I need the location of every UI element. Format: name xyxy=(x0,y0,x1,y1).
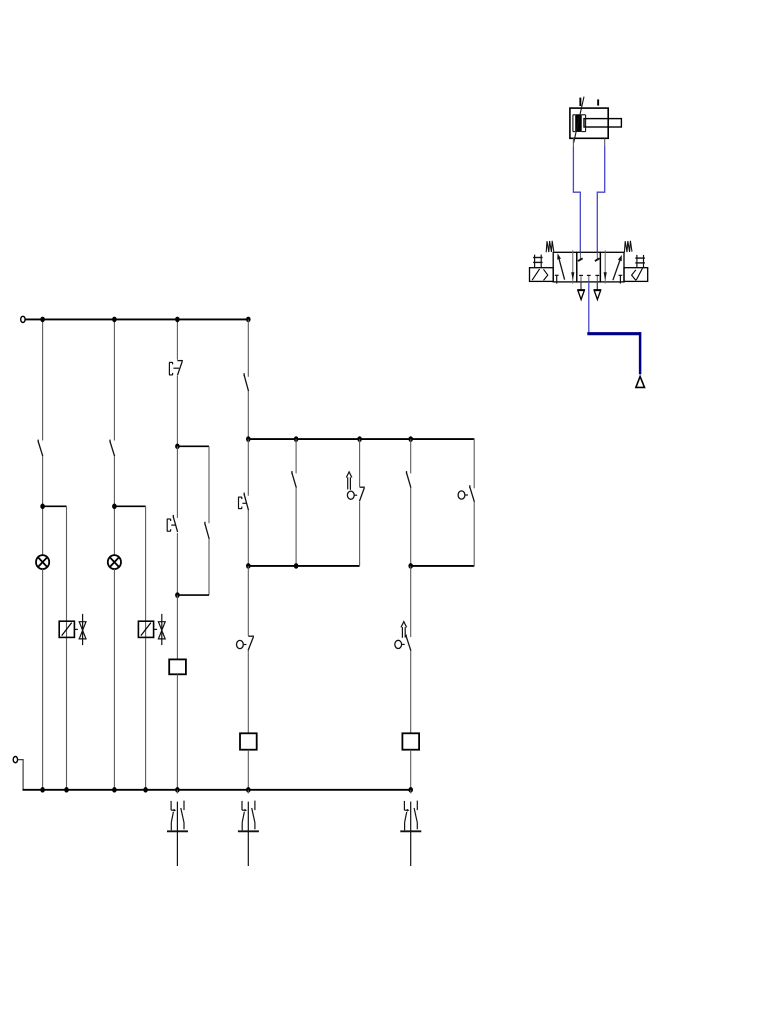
junction top rail / branch2 xyxy=(112,317,117,323)
valve 1V1 left position box xyxy=(553,252,577,282)
link dash Y1 xyxy=(75,628,78,630)
contact K5 NO xyxy=(292,471,296,488)
limit switch 1S3 NO actuated xyxy=(395,635,411,651)
wire jog to solenoid column 2 xyxy=(114,505,145,507)
junction rail2 branch4 xyxy=(246,436,251,442)
terminal 0V left xyxy=(13,757,17,763)
wire left leg lower xyxy=(176,533,178,595)
tube cylinder left to valve port 4 xyxy=(573,147,580,252)
limit switch 1S4 NO xyxy=(458,485,474,502)
exhaust silencer port 3 xyxy=(594,289,602,291)
cylinder 1A cushion right xyxy=(582,115,586,132)
right box flow path arrow up xyxy=(613,255,622,280)
solenoid coil Y1 xyxy=(59,621,74,637)
wire branch3 below coil xyxy=(176,674,178,790)
right box pass line with down arrow xyxy=(604,250,607,283)
wire branch1 mid xyxy=(42,456,44,556)
position tag 1B2 xyxy=(597,99,599,105)
tube valve port 1 down xyxy=(588,282,590,334)
wire top supply rail xyxy=(25,318,248,320)
wire solenoid column 2 xyxy=(145,506,147,790)
actuation arrow 1S2 xyxy=(346,472,352,490)
wire branch7 below coil xyxy=(410,750,412,790)
centre box blocked port 3 xyxy=(595,275,599,282)
wire branch7 below rail3 xyxy=(410,566,412,637)
wire rail 3 right segment xyxy=(411,565,475,567)
junction branch3 bottom xyxy=(175,787,180,793)
junction parallel top xyxy=(175,444,180,450)
main air line horizontal xyxy=(587,332,640,335)
sensor mark diagonal on piston xyxy=(574,97,584,143)
contact K2 NO xyxy=(110,440,115,457)
pushbutton S3 NO (make) xyxy=(244,493,248,511)
junction column1 bottom xyxy=(64,787,69,793)
cylinder port stub right xyxy=(604,138,606,145)
pilot solenoid 1Y1 box left xyxy=(530,268,554,282)
wire branch7 to coil K3 xyxy=(410,651,412,733)
wire parallel bottom rung xyxy=(177,594,209,596)
limit switch 1S1 NC xyxy=(237,636,255,650)
contact K6 NO xyxy=(407,471,411,488)
relay coil K2 xyxy=(240,733,257,749)
wire parallel top rung xyxy=(177,445,209,447)
left box flow path arrow up xyxy=(557,253,564,279)
return spring left xyxy=(546,241,554,253)
wire right leg upper xyxy=(208,446,210,523)
wire branch4 below rail3 xyxy=(247,566,249,636)
cylinder port stub left xyxy=(572,138,574,147)
wire branch4 to rail3 xyxy=(247,510,249,566)
wire rail 2 xyxy=(248,438,474,440)
lamp H2 xyxy=(108,555,121,569)
wire branch6 upper xyxy=(359,439,361,487)
junction branch2 jog xyxy=(112,504,117,510)
exhaust stub port 3 xyxy=(596,282,598,290)
actuation arrow 1S3 xyxy=(401,622,407,638)
centre box blocked port 1 xyxy=(587,275,591,282)
wire branch8 lower xyxy=(473,502,475,567)
actuator button S3 xyxy=(238,497,246,509)
return spring right xyxy=(624,241,632,253)
wire right leg lower xyxy=(208,539,210,595)
actuator button S2 xyxy=(167,519,176,531)
junction top rail / branch4 xyxy=(246,317,251,323)
cylinder 1A cushion left xyxy=(573,115,575,132)
solenoid terminal marks right xyxy=(635,255,645,268)
wire branch6 lower xyxy=(359,502,361,566)
right box blocked port xyxy=(619,275,623,283)
pushbutton S2 NO (make) xyxy=(173,515,177,532)
wire from 0V terminal xyxy=(18,760,23,790)
left box blocked port 3 xyxy=(555,275,559,283)
junction rail2 branch7 xyxy=(408,436,413,442)
junction top rail / branch1 xyxy=(40,317,45,323)
valve 1V1 right position box xyxy=(600,252,624,282)
wire left leg upper xyxy=(176,446,178,518)
junction rail3 branch7 xyxy=(408,563,413,569)
contact K3 NO right leg xyxy=(205,522,209,539)
valve solenoid link 1Y2 below rail xyxy=(238,790,259,866)
wire branch3 to coil xyxy=(176,595,178,659)
exhaust stub port 5 xyxy=(580,282,582,290)
junction rail2 branch5 xyxy=(294,436,299,442)
relay coil K1 xyxy=(169,659,186,674)
wire branch5 upper xyxy=(295,439,297,473)
tube cylinder right to valve port 2 xyxy=(597,146,604,252)
PNEUMATIC CIRCUIT xyxy=(570,97,622,252)
exhaust silencer port 5 xyxy=(577,289,585,291)
lamp H1 xyxy=(36,555,49,569)
wire branch4 below coil xyxy=(247,750,249,790)
compressed air supply 0Z1 xyxy=(636,376,645,387)
pilot solenoid 1Y3 box right xyxy=(624,268,648,282)
centre box blocked port 5 xyxy=(579,275,583,282)
wire branch3 upper xyxy=(176,319,178,359)
junction branch7 bottom xyxy=(408,787,413,793)
wire branch4 to coil K2 xyxy=(247,651,249,734)
left box pass line with down arrow xyxy=(571,250,574,283)
solenoid coil Y2 xyxy=(138,621,153,637)
junction branch1 jog xyxy=(40,504,45,510)
cylinder 1A piston xyxy=(575,114,582,132)
wire rail 3 left segment xyxy=(248,565,359,567)
valve solenoid link 1Y1 below rail xyxy=(167,790,188,866)
wire branch1 lower xyxy=(42,569,44,790)
limit switch 1S2 NC actuated xyxy=(347,487,365,501)
pushbutton S1 NC (break) xyxy=(177,361,183,376)
terminal +24V left xyxy=(21,316,25,322)
wire branch4 upper xyxy=(247,319,249,376)
cylinder 1A body xyxy=(570,108,608,138)
solenoid terminal marks left xyxy=(533,255,543,268)
wire branch2 mid xyxy=(113,456,115,556)
wire branch1 upper xyxy=(42,319,44,440)
contact K1 NO xyxy=(38,440,43,457)
junction parallel bottom xyxy=(175,592,180,598)
main air line vertical xyxy=(639,332,642,374)
junction branch1 bottom xyxy=(40,787,45,793)
junction rail3 branch5 xyxy=(294,563,299,569)
centre box blocked port 4 xyxy=(578,252,583,261)
junction rail2 branch6 xyxy=(357,436,362,442)
position tag 1B1 xyxy=(579,98,581,106)
wire branch2 upper xyxy=(113,319,115,440)
valve 1V1 centre position box xyxy=(577,252,601,282)
wire solenoid column 1 xyxy=(66,506,68,790)
valve cross-reference Y2 xyxy=(158,614,165,645)
junction branch4 bottom xyxy=(246,787,251,793)
contact K4 NO xyxy=(244,373,248,391)
cylinder 1A rod xyxy=(584,119,621,127)
relay coil K3 xyxy=(402,733,419,749)
wire branch2 lower xyxy=(113,569,115,790)
wire branch5 lower xyxy=(295,488,297,566)
wire branch4 to rail2 xyxy=(247,391,249,439)
wire branch4 mid xyxy=(247,439,249,496)
valve cross-reference Y1 xyxy=(79,614,86,645)
wire jog to solenoid column 1 xyxy=(43,505,67,507)
junction column2 bottom xyxy=(143,787,148,793)
centre box blocked port 2 xyxy=(595,252,600,261)
ELECTRICAL LADDER DIAGRAM xyxy=(13,316,474,790)
junction top rail / branch3 xyxy=(175,317,180,323)
wire branch7 mid xyxy=(410,488,412,566)
valve solenoid link 1Y3 below rail xyxy=(400,790,421,866)
junction rail3 branch4 xyxy=(246,563,251,569)
wire branch3 to parallel block xyxy=(176,376,178,446)
actuator button S1 xyxy=(169,362,179,375)
wire branch8 upper xyxy=(473,438,475,488)
junction branch2 bottom xyxy=(112,787,117,793)
wire branch7 upper xyxy=(410,439,412,473)
link dash Y2 xyxy=(154,628,157,630)
wire bottom return rail xyxy=(23,789,411,791)
